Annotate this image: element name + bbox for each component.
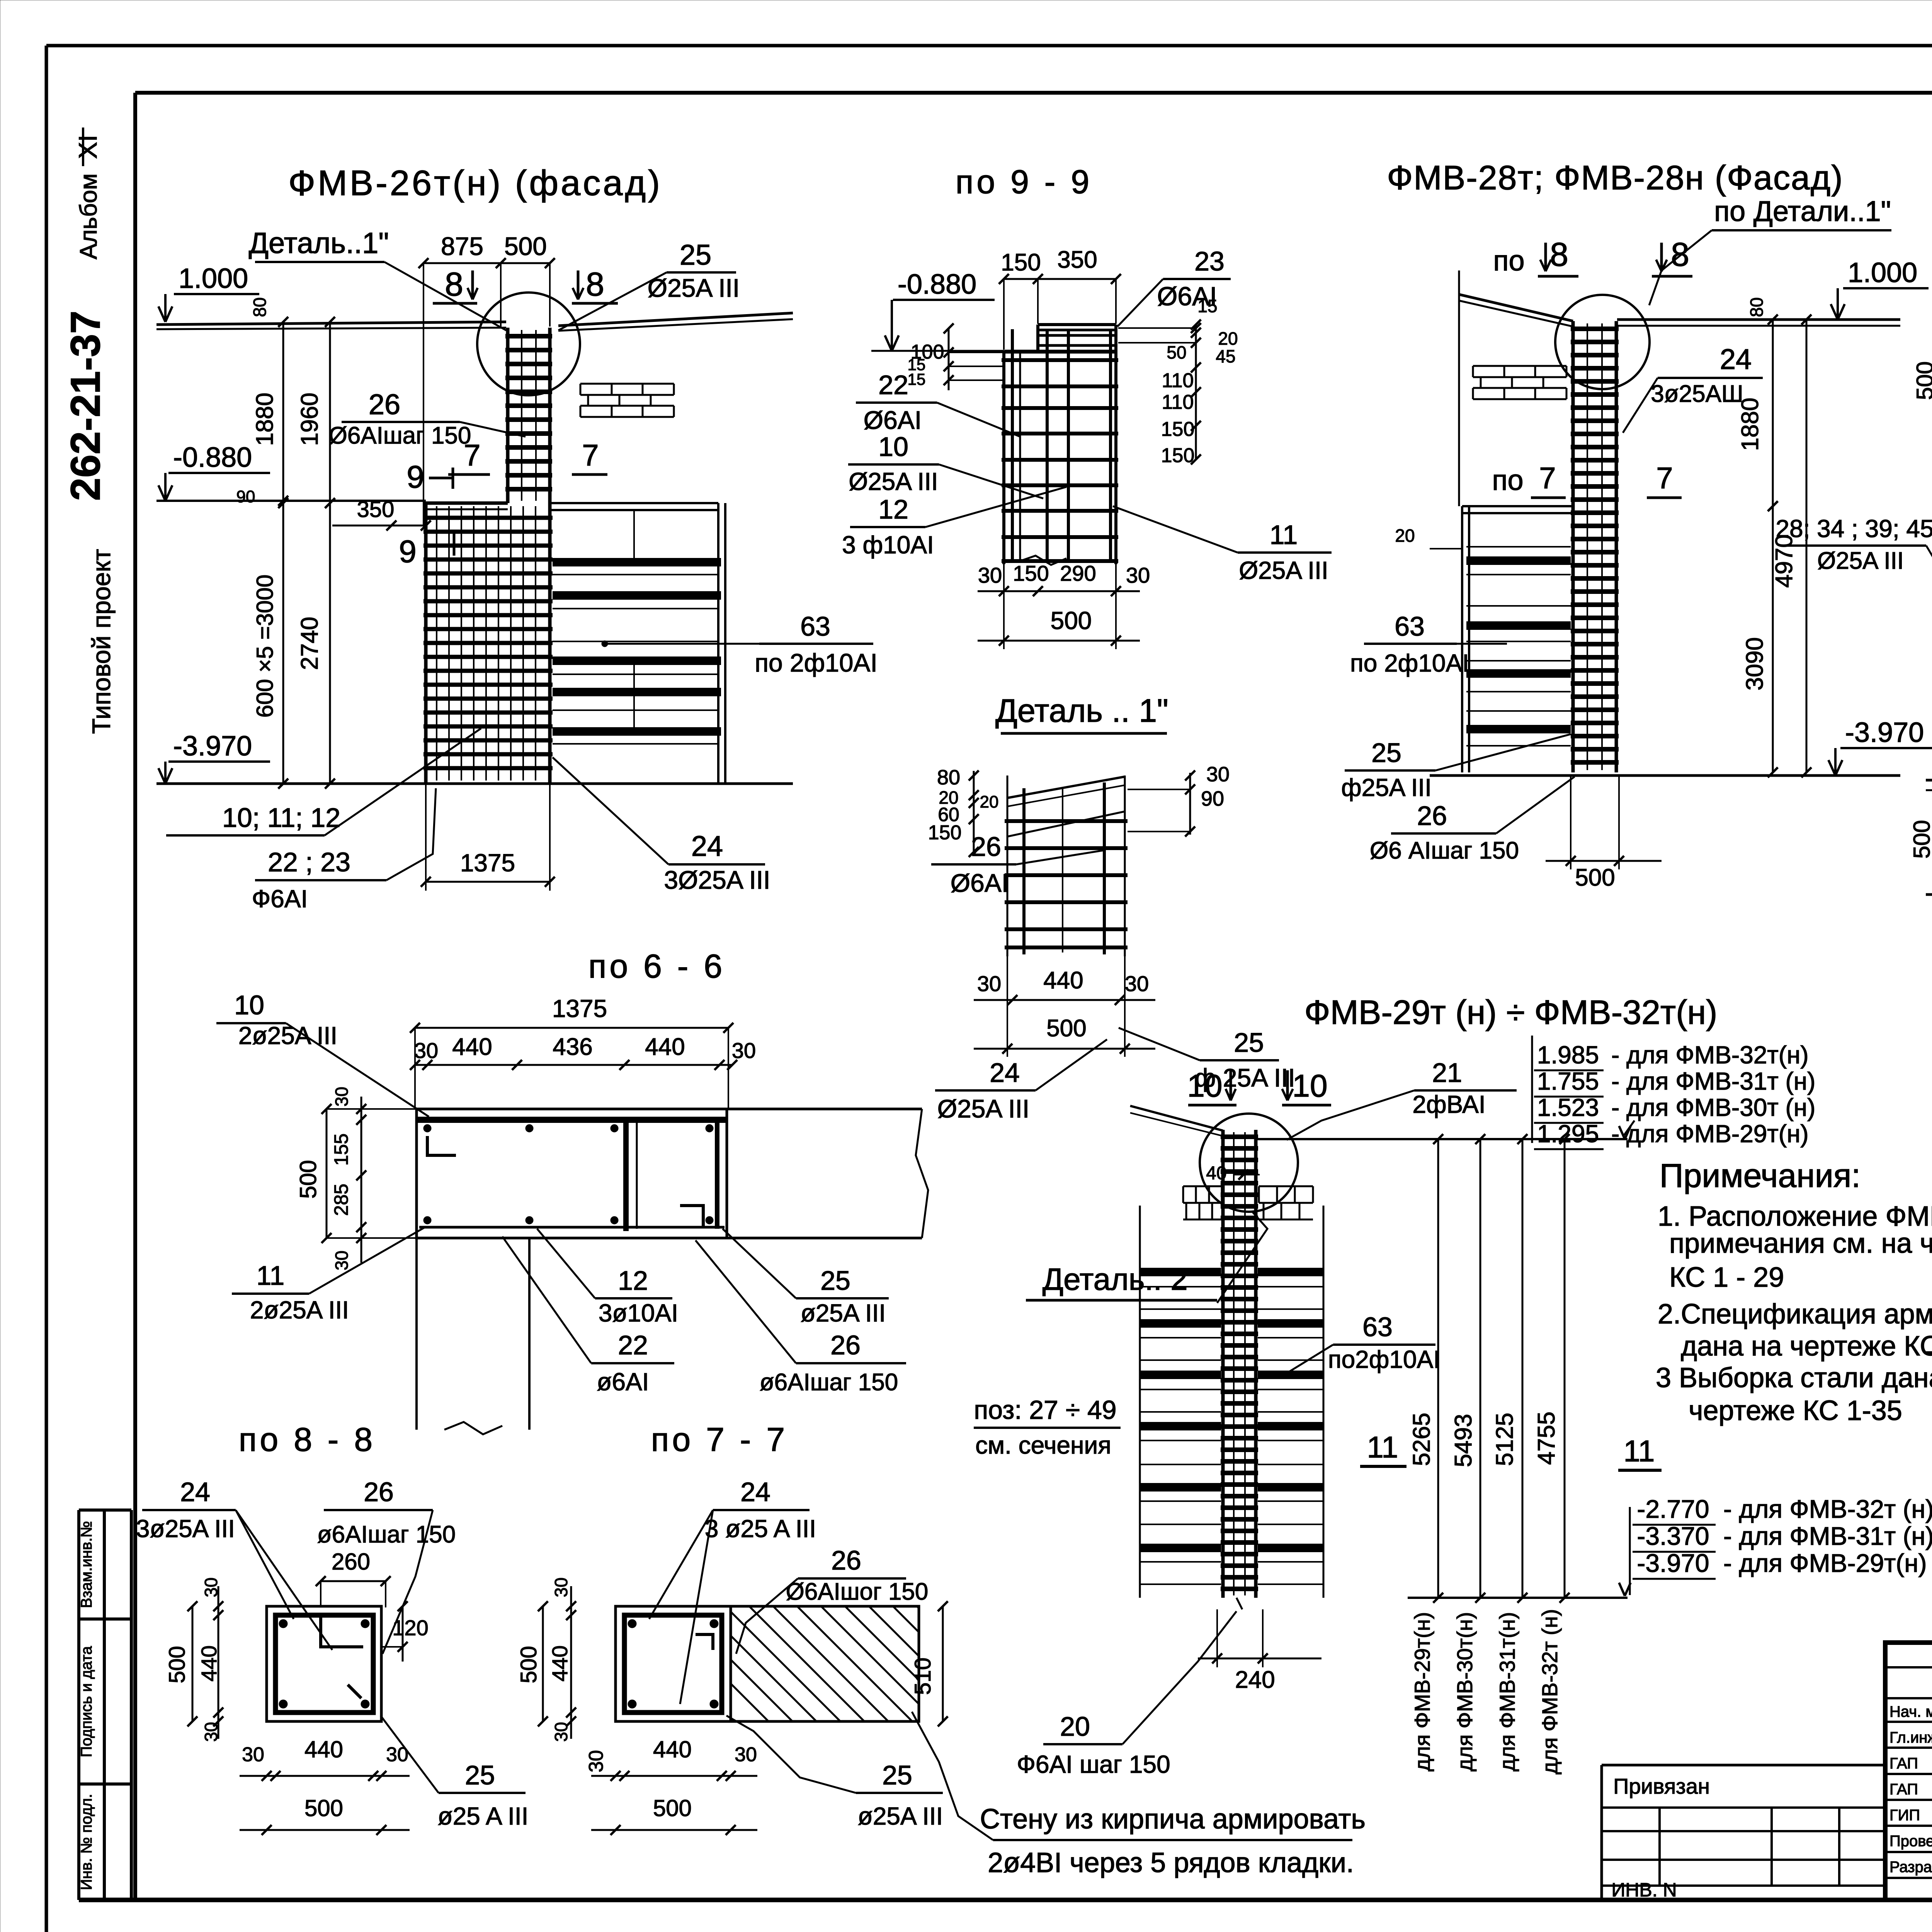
svg-text:50: 50 <box>1167 342 1186 362</box>
svg-text:по: по <box>1493 245 1524 277</box>
svg-text:30: 30 <box>732 1038 756 1063</box>
svg-text:1.000: 1.000 <box>179 263 248 294</box>
svg-text:8: 8 <box>1550 236 1568 273</box>
svg-text:15: 15 <box>1197 296 1217 316</box>
svg-text:1880: 1880 <box>252 393 278 446</box>
A bottom ground line <box>156 782 793 785</box>
svg-text:21: 21 <box>1432 1058 1462 1088</box>
svg-text:9: 9 <box>399 534 417 569</box>
svg-text:Ø25A III: Ø25A III <box>1239 556 1328 584</box>
svg-text:Стену из кирпича армировать: Стену из кирпича армировать <box>980 1804 1366 1835</box>
A top ground line <box>156 322 506 325</box>
svg-text:500: 500 <box>504 232 547 260</box>
svg-text:30: 30 <box>1125 971 1149 996</box>
svg-text:440: 440 <box>653 1736 692 1762</box>
svg-text:25: 25 <box>882 1760 912 1790</box>
svg-text:500: 500 <box>1909 820 1932 859</box>
I plan rectangle <box>417 1109 727 1238</box>
svg-text:63: 63 <box>1362 1312 1393 1342</box>
svg-text:1.985: 1.985 <box>1537 1041 1599 1069</box>
svg-text:3090: 3090 <box>1742 637 1768 690</box>
svg-text:20: 20 <box>1218 328 1238 349</box>
title block outer <box>1885 1643 1932 1900</box>
svg-text:24: 24 <box>691 830 723 862</box>
svg-text:285: 285 <box>330 1184 352 1216</box>
A floor slabs right <box>553 558 721 566</box>
svg-text:24: 24 <box>180 1477 210 1507</box>
svg-text:1.295: 1.295 <box>1537 1120 1599 1148</box>
svg-text:ø6АI: ø6АI <box>597 1368 649 1396</box>
svg-text:3 ø25 A III: 3 ø25 A III <box>705 1515 816 1543</box>
svg-text:по2ф10АI: по2ф10АI <box>1328 1345 1440 1373</box>
svg-text:- для ФМВ-32т(н): - для ФМВ-32т(н) <box>1611 1041 1809 1069</box>
svg-text:Деталь..1": Деталь..1" <box>249 227 389 260</box>
svg-text:26: 26 <box>364 1477 394 1507</box>
privyazan table <box>1602 1764 1885 1767</box>
svg-text:Ø25A III: Ø25A III <box>648 274 740 302</box>
B column section grid <box>1002 352 1005 564</box>
svg-text:12: 12 <box>878 494 908 524</box>
svg-text:1375: 1375 <box>552 995 607 1022</box>
D pier ladder <box>1571 321 1575 772</box>
svg-text:2ø25A III: 2ø25A III <box>238 1022 337 1049</box>
svg-text:по 7 - 7: по 7 - 7 <box>651 1421 788 1458</box>
svg-text:26: 26 <box>831 1545 861 1575</box>
A foundation wide pier <box>424 503 428 784</box>
svg-text:150: 150 <box>1013 561 1049 585</box>
J square section <box>267 1606 381 1721</box>
A detail circle <box>477 293 580 395</box>
svg-text:28; 34 ; 39; 45: 28; 34 ; 39; 45 <box>1776 515 1932 543</box>
svg-text:63: 63 <box>800 611 830 641</box>
svg-text:20: 20 <box>1060 1711 1090 1742</box>
svg-text:XI: XI <box>73 135 102 159</box>
svg-text:150: 150 <box>1001 249 1041 276</box>
svg-text:80: 80 <box>1747 297 1767 317</box>
inner drawing frame <box>135 91 1932 95</box>
svg-text:120: 120 <box>392 1616 428 1640</box>
D detail circle <box>1555 295 1650 389</box>
svg-text:Типовой проект: Типовой проект <box>87 549 116 734</box>
svg-text:500: 500 <box>165 1646 190 1684</box>
svg-text:20: 20 <box>1395 526 1415 546</box>
svg-text:- для ФМВ-31т (н): - для ФМВ-31т (н) <box>1723 1522 1932 1550</box>
svg-text:25: 25 <box>820 1265 850 1296</box>
svg-text:см. сечения: см. сечения <box>975 1431 1111 1459</box>
H roof slope <box>1130 1106 1223 1131</box>
svg-text:90: 90 <box>236 487 255 506</box>
svg-text:500: 500 <box>1046 1015 1086 1042</box>
svg-text:3 Выборка стали дана на: 3 Выборка стали дана на <box>1656 1362 1932 1393</box>
svg-text:примечания см. на чертеже: примечания см. на чертеже <box>1669 1228 1932 1259</box>
svg-text:ФМВ-29т (н) ÷ ФМВ-32т(н): ФМВ-29т (н) ÷ ФМВ-32т(н) <box>1304 993 1718 1031</box>
svg-text:ФМВ-28т; ФМВ-28н (Фасад): ФМВ-28т; ФМВ-28н (Фасад) <box>1387 158 1843 197</box>
svg-text:440: 440 <box>304 1736 343 1762</box>
A brick hatch right <box>580 383 674 385</box>
svg-text:Ø25A III: Ø25A III <box>1817 548 1904 574</box>
svg-text:1880: 1880 <box>1737 398 1764 451</box>
svg-text:15: 15 <box>908 370 926 388</box>
H left wall slabs <box>1139 1206 1141 1598</box>
svg-text:11: 11 <box>1270 520 1298 550</box>
svg-text:- для ФМВ-29т(н) ФМВ-30т(н): - для ФМВ-29т(н) ФМВ-30т(н) <box>1723 1549 1932 1577</box>
svg-text:30: 30 <box>414 1038 438 1063</box>
svg-text:- для ФМВ-32т (н): - для ФМВ-32т (н) <box>1723 1495 1932 1523</box>
svg-text:24: 24 <box>740 1477 770 1507</box>
svg-text:КС 1 - 29: КС 1 - 29 <box>1669 1262 1784 1293</box>
svg-text:-2.770: -2.770 <box>1637 1495 1709 1523</box>
svg-text:25: 25 <box>465 1760 495 1790</box>
svg-text:11: 11 <box>257 1260 285 1291</box>
svg-text:10: 10 <box>1187 1068 1222 1104</box>
svg-text:по: по <box>1492 464 1523 496</box>
I walls below <box>415 1238 418 1430</box>
signature table <box>1885 1666 1932 1668</box>
svg-text:11: 11 <box>1624 1434 1655 1468</box>
svg-text:1960: 1960 <box>296 393 323 446</box>
svg-text:1.000: 1.000 <box>1848 257 1917 288</box>
svg-text:по Детали..1": по Детали..1" <box>1714 195 1891 227</box>
svg-text:3 ф10АI: 3 ф10АI <box>842 531 934 559</box>
D roof slope lines <box>1459 294 1573 321</box>
svg-text:25: 25 <box>680 239 711 271</box>
svg-text:ø25 A III: ø25 A III <box>438 1802 529 1830</box>
svg-text:ГАП: ГАП <box>1889 1755 1918 1772</box>
svg-text:-3.970: -3.970 <box>1845 717 1924 748</box>
svg-text:436: 436 <box>553 1034 592 1060</box>
H levels block top right <box>1531 1036 1533 1143</box>
svg-text:2ø4ВI через 5 рядов кладки.: 2ø4ВI через 5 рядов кладки. <box>988 1847 1354 1878</box>
I wall extension right <box>727 1108 922 1111</box>
H levels block bottom right <box>1629 1507 1631 1595</box>
svg-text:23: 23 <box>1194 246 1225 276</box>
outer page border <box>46 44 1932 48</box>
svg-text:ГАП: ГАП <box>1889 1781 1918 1798</box>
svg-text:2740: 2740 <box>296 617 323 670</box>
H level line right + dim verticals <box>1256 1138 1628 1140</box>
svg-text:по 2ф10АI: по 2ф10АI <box>755 648 878 677</box>
svg-text:26: 26 <box>971 832 1001 862</box>
svg-text:Нач. маст.: Нач. маст. <box>1889 1703 1932 1720</box>
svg-text:500: 500 <box>304 1795 343 1821</box>
svg-text:Ø6АI: Ø6АI <box>864 406 922 434</box>
svg-text:Ø6АI: Ø6АI <box>951 869 1009 897</box>
svg-text:чертеже КС 1-35: чертеже КС 1-35 <box>1689 1395 1902 1426</box>
svg-text:30: 30 <box>332 1087 352 1106</box>
svg-text:500: 500 <box>653 1795 692 1821</box>
svg-text:30: 30 <box>585 1750 607 1772</box>
svg-text:150: 150 <box>1161 444 1195 467</box>
svg-text:20: 20 <box>980 793 999 811</box>
svg-text:440: 440 <box>1043 967 1083 994</box>
svg-text:5125: 5125 <box>1492 1413 1518 1466</box>
svg-text:10; 11; 12: 10; 11; 12 <box>222 803 340 833</box>
I inner bars <box>623 1120 629 1231</box>
svg-text:22: 22 <box>878 370 908 400</box>
C column <box>1007 776 1009 956</box>
svg-text:9: 9 <box>406 459 424 495</box>
svg-text:24: 24 <box>1720 343 1752 375</box>
svg-text:Ø25A III: Ø25A III <box>849 468 938 495</box>
svg-text:по 6 - 6: по 6 - 6 <box>588 948 725 985</box>
svg-text:-3.370: -3.370 <box>1637 1522 1709 1550</box>
svg-text:ГИП: ГИП <box>1889 1807 1920 1824</box>
svg-text:1.523: 1.523 <box>1537 1094 1599 1121</box>
svg-text:5265: 5265 <box>1408 1413 1435 1466</box>
D left wall and slabs <box>1461 506 1463 772</box>
svg-text:Ф6АI шаг 150: Ф6АI шаг 150 <box>1017 1750 1170 1778</box>
svg-text:600 ×5 =3000: 600 ×5 =3000 <box>252 575 278 718</box>
svg-text:Гл.инж. м.: Гл.инж. м. <box>1889 1729 1932 1746</box>
svg-text:500: 500 <box>295 1160 321 1199</box>
svg-text:Альбом: Альбом <box>75 173 102 259</box>
svg-text:1.755: 1.755 <box>1537 1067 1599 1095</box>
svg-text:26: 26 <box>830 1330 861 1360</box>
svg-text:7: 7 <box>1656 461 1673 495</box>
svg-text:дана на чертеже КС 1-34: дана на чертеже КС 1-34 <box>1681 1331 1932 1362</box>
svg-text:-3.970: -3.970 <box>1637 1549 1709 1577</box>
svg-text:-3.970: -3.970 <box>173 731 252 762</box>
svg-text:Ф6АI: Ф6АI <box>252 885 308 913</box>
svg-text:500: 500 <box>1575 864 1615 891</box>
svg-text:500: 500 <box>1051 607 1092 634</box>
svg-text:80: 80 <box>937 766 960 789</box>
svg-text:- для ФМВ-29т(н): - для ФМВ-29т(н) <box>1611 1120 1809 1148</box>
svg-text:25: 25 <box>1234 1027 1264 1058</box>
svg-text:10: 10 <box>234 990 264 1020</box>
svg-text:5493: 5493 <box>1450 1414 1477 1467</box>
svg-text:поз: 27 ÷ 49: поз: 27 ÷ 49 <box>974 1395 1116 1425</box>
svg-text:500: 500 <box>1912 361 1932 400</box>
svg-text:30: 30 <box>978 563 1002 587</box>
svg-text:- для ФМВ-30т (н): - для ФМВ-30т (н) <box>1611 1094 1815 1121</box>
A -0.880 level line <box>156 500 426 502</box>
svg-text:90: 90 <box>1201 787 1224 810</box>
H bottom line <box>1408 1597 1628 1599</box>
svg-text:30: 30 <box>735 1743 757 1766</box>
svg-text:150: 150 <box>928 821 962 844</box>
B bottom break <box>1020 556 1066 565</box>
H brick hatches <box>1183 1185 1222 1187</box>
svg-text:22: 22 <box>618 1330 648 1360</box>
svg-text:8: 8 <box>1671 236 1689 273</box>
svg-text:11: 11 <box>1367 1430 1398 1464</box>
H detail circle <box>1200 1114 1298 1212</box>
svg-text:по 9 - 9: по 9 - 9 <box>956 163 1092 201</box>
svg-text:Привязан: Привязан <box>1613 1774 1710 1798</box>
svg-text:875: 875 <box>441 232 483 260</box>
svg-text:80: 80 <box>250 297 270 317</box>
svg-text:45: 45 <box>1216 346 1235 366</box>
svg-text:3ø10АI: 3ø10АI <box>599 1299 678 1327</box>
H pier ladder <box>1221 1130 1225 1598</box>
svg-text:Деталь .. 1": Деталь .. 1" <box>995 692 1168 729</box>
svg-text:7: 7 <box>582 438 599 472</box>
svg-text:3Ø25A III: 3Ø25A III <box>664 866 770 894</box>
A pier upper <box>506 328 510 503</box>
svg-text:Деталь.. 2": Деталь.. 2" <box>1043 1262 1199 1296</box>
svg-text:- для ФМВ-31т (н): - для ФМВ-31т (н) <box>1611 1067 1815 1095</box>
D ground line <box>1617 318 1900 321</box>
svg-text:26: 26 <box>369 388 400 420</box>
svg-text:30: 30 <box>1206 763 1230 786</box>
svg-text:ø6АIшаг 150: ø6АIшаг 150 <box>317 1521 456 1548</box>
svg-text:500: 500 <box>516 1646 541 1684</box>
svg-text:ø25A III: ø25A III <box>858 1802 943 1830</box>
svg-text:ф25A III: ф25A III <box>1341 774 1432 801</box>
svg-text:Ø25A III: Ø25A III <box>937 1094 1029 1123</box>
svg-text:150: 150 <box>1161 418 1195 440</box>
svg-text:30: 30 <box>1126 563 1150 587</box>
svg-text:10: 10 <box>1292 1068 1327 1104</box>
D bottom ground line <box>1430 774 1900 777</box>
svg-text:ИНВ. N: ИНВ. N <box>1611 1879 1677 1901</box>
svg-text:Взам.инв.№: Взам.инв.№ <box>78 1521 95 1608</box>
svg-text:ø6АIшаг 150: ø6АIшаг 150 <box>760 1369 898 1396</box>
svg-text:Ø6 АIшаг 150: Ø6 АIшаг 150 <box>1370 837 1519 864</box>
svg-text:2.Спецификация арматуры: 2.Спецификация арматуры <box>1658 1299 1932 1330</box>
svg-text:ø25A III: ø25A III <box>801 1299 886 1327</box>
svg-text:10: 10 <box>878 432 908 462</box>
svg-text:26: 26 <box>1417 801 1447 831</box>
D brick hatch left <box>1473 365 1566 367</box>
svg-text:ФМВ-26т(н) (фасад): ФМВ-26т(н) (фасад) <box>288 163 662 203</box>
A right wall <box>717 503 719 784</box>
svg-text:63: 63 <box>1395 611 1425 641</box>
svg-text:510: 510 <box>910 1658 935 1695</box>
svg-text:24: 24 <box>990 1058 1020 1088</box>
left margin stamp boxes <box>79 1509 131 1512</box>
svg-text:4755: 4755 <box>1533 1412 1560 1465</box>
svg-text:8: 8 <box>586 266 604 303</box>
svg-text:30: 30 <box>242 1743 264 1766</box>
svg-text:Подпись и дата: Подпись и дата <box>78 1646 95 1757</box>
svg-text:8: 8 <box>445 266 463 303</box>
svg-text:1. Расположение ФМВ и общие: 1. Расположение ФМВ и общие <box>1658 1201 1932 1232</box>
svg-text:155: 155 <box>330 1133 352 1165</box>
svg-text:440: 440 <box>645 1034 685 1060</box>
svg-text:Разраб: Разраб <box>1889 1859 1932 1876</box>
svg-text:3ø25A III: 3ø25A III <box>136 1515 235 1543</box>
svg-text:1375: 1375 <box>460 849 515 877</box>
svg-text:2ø25A III: 2ø25A III <box>250 1296 349 1324</box>
svg-text:-0.880: -0.880 <box>173 442 252 473</box>
svg-text:350: 350 <box>1057 247 1097 273</box>
svg-text:262-21-37: 262-21-37 <box>62 311 109 501</box>
svg-text:30: 30 <box>977 971 1001 996</box>
svg-text:для ФМВ-31т(н): для ФМВ-31т(н) <box>1495 1612 1519 1772</box>
svg-text:-0.880: -0.880 <box>898 269 976 300</box>
svg-text:440: 440 <box>452 1034 492 1060</box>
svg-text:Провер.: Провер. <box>1889 1833 1932 1850</box>
svg-text:по 2ф10АI: по 2ф10АI <box>1350 649 1469 677</box>
svg-text:240: 240 <box>1235 1667 1275 1693</box>
svg-text:290: 290 <box>1060 561 1096 585</box>
svg-text:260: 260 <box>332 1549 370 1575</box>
svg-text:Инв. № подл.: Инв. № подл. <box>78 1794 95 1890</box>
svg-text:Примечания:: Примечания: <box>1660 1157 1861 1194</box>
K hatched wall right <box>731 1606 919 1721</box>
svg-text:7: 7 <box>1539 461 1556 495</box>
svg-text:для ФМВ-32т (н): для ФМВ-32т (н) <box>1537 1609 1562 1774</box>
svg-text:25: 25 <box>1371 738 1401 768</box>
svg-text:110: 110 <box>1162 391 1194 413</box>
svg-text:по 8 - 8: по 8 - 8 <box>239 1421 376 1458</box>
svg-text:Ø6АIшаг 150: Ø6АIшаг 150 <box>329 422 471 449</box>
F wall lines <box>1926 779 1932 782</box>
svg-text:3ø25AШ: 3ø25AШ <box>1651 381 1743 407</box>
svg-text:30: 30 <box>332 1250 352 1270</box>
svg-text:22 ; 23: 22 ; 23 <box>268 847 350 877</box>
svg-text:для ФМВ-30т(н): для ФМВ-30т(н) <box>1452 1612 1477 1772</box>
svg-text:350: 350 <box>357 497 395 522</box>
svg-text:110: 110 <box>1162 369 1194 392</box>
K square section <box>616 1606 731 1721</box>
svg-text:Ø6АIшог 150: Ø6АIшог 150 <box>786 1578 929 1605</box>
svg-text:12: 12 <box>618 1265 648 1296</box>
svg-text:для ФМВ-29т(н): для ФМВ-29т(н) <box>1410 1612 1434 1772</box>
svg-text:440: 440 <box>548 1645 572 1681</box>
svg-text:30: 30 <box>551 1577 571 1597</box>
svg-text:2фВАI: 2фВАI <box>1412 1090 1485 1118</box>
